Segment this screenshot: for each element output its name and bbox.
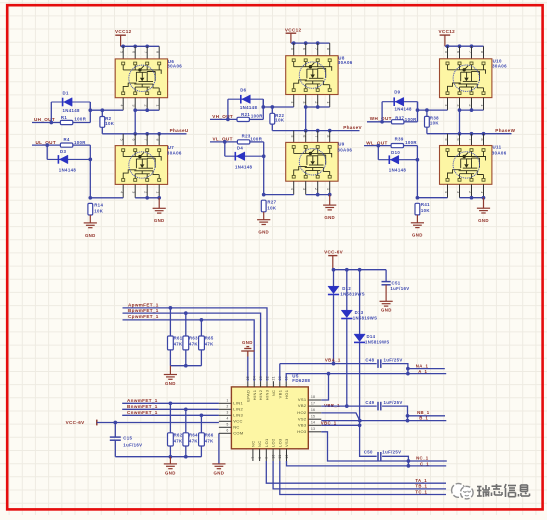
junction [113, 421, 117, 425]
svg-text:CnwmFET_1: CnwmFET_1 [127, 410, 158, 415]
svg-text:R1: R1 [61, 115, 67, 120]
svg-text:30A06: 30A06 [338, 60, 353, 65]
svg-text:PhaseV: PhaseV [343, 125, 362, 130]
svg-text:4: 4 [226, 417, 228, 421]
ground [477, 208, 490, 213]
wire drain stubs upper FET [447, 46, 449, 59]
svg-text:VBA_1: VBA_1 [325, 357, 341, 362]
wire BpwmFET_1 to HIN2 [123, 313, 261, 381]
resistor R4 100R [60, 143, 72, 147]
svg-text:4: 4 [120, 105, 124, 107]
svg-text:6: 6 [456, 51, 460, 53]
svg-text:COM: COM [233, 430, 243, 435]
capacitor C50 1uF/25V [378, 452, 381, 461]
svg-text:7: 7 [251, 456, 255, 458]
wire source bus upper FET [306, 106, 330, 108]
wire join down to low gate bus [89, 145, 91, 198]
svg-text:R65: R65 [205, 336, 214, 341]
svg-text:6: 6 [302, 48, 306, 50]
junction [332, 362, 336, 366]
junction [358, 419, 362, 423]
wire drain stubs upper FET [122, 46, 124, 59]
wire phase bus PhaseV [272, 130, 359, 132]
svg-text:NC: NC [257, 441, 262, 447]
svg-text:LO1: LO1 [264, 438, 269, 447]
wire R down to phase [271, 124, 273, 131]
svg-text:11: 11 [278, 455, 282, 459]
wire source bus lower FET [135, 197, 159, 199]
wire VCC rail [291, 42, 330, 44]
svg-text:8: 8 [326, 48, 330, 50]
svg-text:10: 10 [271, 454, 275, 458]
svg-text:10K: 10K [421, 208, 431, 213]
svg-text:47K: 47K [205, 342, 214, 347]
junction [407, 459, 411, 463]
junction [45, 143, 49, 147]
wire drain stubs upper FET [293, 43, 295, 56]
svg-text:LIN3: LIN3 [233, 412, 243, 417]
wire R down to phase [426, 127, 428, 134]
ground [257, 220, 270, 225]
svg-text:B_1: B_1 [419, 416, 428, 421]
junction [184, 364, 188, 368]
svg-text:30A06: 30A06 [337, 148, 352, 153]
wire R to gnd [89, 215, 91, 223]
svg-text:100R: 100R [405, 117, 417, 122]
wire up to diode [227, 99, 229, 119]
resistor R38 10K gate pulldown [425, 116, 430, 127]
capacitor C51 1uF/16V [385, 270, 387, 282]
wire VCC rail [121, 45, 160, 47]
svg-text:NA_1: NA_1 [416, 363, 429, 368]
resistor R2 10K gate pulldown [100, 117, 105, 128]
svg-text:NC_1: NC_1 [416, 456, 429, 461]
junction [169, 455, 173, 459]
wire pulldown drops [169, 308, 171, 336]
junction [458, 132, 462, 136]
svg-text:7: 7 [468, 139, 472, 141]
svg-text:14: 14 [311, 421, 315, 425]
svg-text:VCC: VCC [233, 418, 243, 423]
wire VB3 [321, 424, 359, 426]
wire phase drop [305, 107, 307, 131]
svg-text:5: 5 [120, 51, 124, 53]
svg-text:1N4148: 1N4148 [389, 167, 407, 172]
svg-text:2: 2 [468, 191, 472, 193]
wire lower rail [115, 446, 201, 457]
svg-text:VS3: VS3 [284, 438, 289, 447]
wire VB2 to cap [321, 405, 376, 407]
wire source to gnd [329, 195, 331, 206]
wire up to diode [50, 102, 52, 123]
svg-text:C50: C50 [364, 449, 373, 454]
resistor R14 10K [88, 203, 93, 215]
transistor U8 (high-side MOSFET) [286, 56, 338, 95]
svg-text:HIN2: HIN2 [258, 389, 263, 400]
svg-text:3: 3 [132, 191, 136, 193]
wire source stubs upper FET [447, 98, 449, 111]
wire down to diode [46, 145, 48, 159]
transistor U7 (low-side MOSFET) [115, 146, 167, 185]
svg-text:HO1: HO1 [284, 389, 289, 399]
svg-text:HO3: HO3 [297, 429, 307, 434]
transistor U9 (low-side MOSFET) [286, 142, 338, 181]
svg-text:VL_OUT: VL_OUT [213, 137, 233, 142]
svg-text:4: 4 [290, 101, 294, 103]
diode D3 1N4148 [47, 158, 90, 160]
wire resistor right [73, 144, 91, 146]
wire resistor right [404, 145, 418, 147]
svg-text:8: 8 [156, 139, 160, 141]
svg-text:1uF/16V: 1uF/16V [390, 286, 409, 291]
resistor R21 100R [237, 117, 249, 121]
svg-text:VH_OUT: VH_OUT [212, 114, 233, 119]
svg-text:8: 8 [156, 51, 160, 53]
svg-text:C48: C48 [365, 358, 374, 363]
svg-text:3: 3 [456, 104, 460, 106]
wire resistor to junction [73, 122, 91, 124]
svg-text:VCC-6V: VCC-6V [66, 420, 86, 425]
capacitor C48 1uF/25V [378, 359, 381, 368]
wire source stubs lower FET [122, 184, 124, 197]
svg-text:GND: GND [478, 218, 489, 223]
resistor R41 10K [415, 203, 420, 215]
svg-text:NC: NC [271, 390, 276, 396]
wire R to gate bus [426, 110, 428, 116]
wire R to gate bus [101, 110, 103, 116]
wire from gate net [367, 121, 392, 123]
wire source stubs upper FET [293, 95, 295, 108]
wire diode join down to gate bus [89, 102, 91, 110]
svg-text:VCC12: VCC12 [439, 29, 456, 34]
svg-text:7: 7 [314, 48, 318, 50]
svg-text:1N4148: 1N4148 [63, 108, 81, 113]
resistor R1 100R [60, 120, 72, 124]
svg-text:BpwmFET_1: BpwmFET_1 [128, 308, 159, 313]
wire rail to gnd [169, 366, 171, 375]
svg-text:5: 5 [444, 139, 448, 141]
svg-text:1N5819WS: 1N5819WS [353, 316, 378, 321]
svg-text:C15: C15 [123, 435, 132, 440]
wire down to diode [224, 142, 226, 156]
junction [133, 132, 137, 136]
svg-text:100R: 100R [74, 140, 86, 145]
wire rail to gnd [169, 457, 171, 464]
svg-text:1: 1 [326, 101, 330, 103]
wire low gate bus [264, 194, 294, 196]
resistor R63 47K [183, 336, 189, 350]
svg-text:LO3: LO3 [277, 438, 282, 447]
wire pulldown rail [170, 350, 201, 366]
svg-text:100R: 100R [74, 117, 86, 122]
wire VS3 / C_1 [287, 461, 447, 466]
ground [153, 208, 166, 213]
svg-text:3: 3 [302, 188, 306, 190]
svg-text:1: 1 [226, 399, 228, 403]
junction [304, 105, 308, 109]
wire VB3 down to cap row [360, 425, 377, 456]
svg-text:5: 5 [290, 135, 294, 137]
svg-text:GND: GND [412, 233, 423, 238]
svg-text:25: 25 [246, 376, 250, 380]
junction [100, 108, 104, 112]
svg-text:10K: 10K [267, 205, 277, 210]
wire cap to corner [382, 406, 407, 421]
svg-text:2: 2 [226, 405, 228, 409]
svg-text:10K: 10K [430, 121, 440, 126]
resistor R22 10K gate pulldown [270, 113, 275, 124]
IC right pin stubs [308, 399, 321, 401]
transistor U11 (low-side MOSFET) [440, 146, 492, 185]
svg-text:GND: GND [242, 340, 253, 345]
wire LO3 / TC_1 [280, 461, 446, 495]
svg-text:TC_1: TC_1 [415, 490, 427, 495]
svg-text:D9: D9 [394, 90, 400, 95]
svg-text:10K: 10K [105, 121, 115, 126]
svg-text:2: 2 [144, 105, 148, 107]
wire VCC-6V to VCC pin [97, 422, 219, 424]
diode D6 1N4148 [228, 98, 263, 100]
diode D13 1N5819WS [346, 270, 348, 311]
svg-text:6: 6 [226, 429, 228, 433]
svg-text:4: 4 [444, 191, 448, 193]
svg-text:22: 22 [265, 376, 269, 380]
wire source bus upper FET [460, 109, 484, 111]
resistor R65 47K [199, 336, 205, 350]
diode D9 1N4148 [382, 101, 417, 103]
wire BnwmFET_1 to LIN2 [122, 408, 219, 410]
svg-text:3: 3 [456, 191, 460, 193]
wire source bus upper FET [135, 109, 159, 111]
svg-text:16: 16 [311, 408, 315, 412]
wire VB1 riser [279, 364, 281, 382]
wire down to diode [377, 146, 379, 160]
svg-text:R27: R27 [267, 199, 276, 204]
junction [145, 196, 149, 200]
wire CpwmFET_1 to HIN1 [123, 320, 255, 381]
wire AnwmFET_1 to LIN1 [122, 402, 219, 404]
diode D14 1N5819WS [359, 270, 361, 334]
wire resistor right [250, 141, 264, 143]
svg-text:R61: R61 [174, 336, 183, 341]
junction [88, 108, 92, 112]
svg-text:R4: R4 [64, 137, 70, 142]
svg-text:TB_1: TB_1 [415, 484, 427, 489]
svg-text:GND: GND [85, 233, 96, 238]
junction [226, 118, 230, 122]
wire VCC-6V rail [333, 269, 386, 271]
junction [316, 193, 320, 197]
svg-text:24: 24 [253, 376, 257, 380]
svg-text:2: 2 [314, 188, 318, 190]
wire from low gate net [32, 144, 60, 146]
svg-text:GND: GND [381, 308, 392, 313]
junction [270, 105, 274, 109]
svg-text:C49: C49 [365, 400, 374, 405]
junction [446, 44, 450, 48]
svg-text:1: 1 [480, 104, 484, 106]
svg-text:VS1: VS1 [298, 397, 307, 402]
junction [261, 105, 265, 109]
svg-text:GND: GND [214, 471, 225, 476]
junction [380, 120, 384, 124]
svg-text:LIN2: LIN2 [233, 406, 243, 411]
svg-text:17: 17 [311, 401, 315, 405]
wire source bus lower FET [306, 194, 330, 196]
ground [84, 223, 97, 228]
ground [212, 464, 225, 469]
wire from low gate net [364, 145, 391, 147]
svg-text:VCC12: VCC12 [115, 29, 132, 34]
svg-text:R66: R66 [205, 432, 214, 437]
svg-text:10K: 10K [275, 118, 285, 123]
svg-text:6: 6 [302, 135, 306, 137]
wire cap to corner [382, 456, 408, 466]
svg-text:8: 8 [258, 456, 262, 458]
ground [411, 223, 424, 228]
watermark text (hand-drawn CJK strokes) [477, 484, 530, 497]
junction [292, 41, 296, 45]
junction [133, 108, 137, 112]
svg-text:1uF/16V: 1uF/16V [123, 443, 142, 448]
svg-text:R41: R41 [421, 202, 430, 207]
wire source stubs lower FET [293, 181, 295, 194]
svg-text:D1: D1 [63, 90, 69, 95]
junction [332, 268, 336, 272]
wire join down to low gate bus [263, 142, 265, 195]
svg-text:NB_1: NB_1 [417, 410, 430, 415]
wire NB_1 [408, 415, 446, 417]
svg-text:47K: 47K [205, 439, 214, 444]
svg-text:100R: 100R [251, 114, 263, 119]
svg-text:18: 18 [311, 395, 315, 399]
IC bottom pin stubs [252, 449, 254, 461]
svg-text:5: 5 [120, 139, 124, 141]
capacitor C15 1uF/16V [114, 423, 116, 438]
ground [164, 375, 177, 380]
svg-text:1: 1 [156, 191, 160, 193]
svg-text:23: 23 [259, 376, 263, 380]
junction [88, 158, 92, 162]
ground [380, 301, 393, 306]
svg-text:HIN1: HIN1 [252, 389, 257, 400]
svg-text:2: 2 [144, 191, 148, 193]
svg-text:8: 8 [480, 139, 484, 141]
wire VB1 to cap [280, 363, 377, 365]
svg-text:2: 2 [314, 101, 318, 103]
svg-text:4: 4 [120, 191, 124, 193]
wire LO1 / TA_1 [266, 461, 446, 483]
svg-text:1N4148: 1N4148 [240, 105, 258, 110]
svg-text:30A06: 30A06 [167, 151, 182, 156]
capacitor C49 1uF/25V [378, 402, 381, 411]
wire R to gate bus [271, 107, 273, 113]
svg-text:2: 2 [468, 104, 472, 106]
junction [416, 158, 420, 162]
svg-text:VS2: VS2 [298, 416, 307, 421]
wire diode join down to gate bus [262, 99, 264, 107]
svg-text:30A06: 30A06 [492, 151, 507, 156]
svg-text:6: 6 [132, 139, 136, 141]
svg-text:4: 4 [444, 104, 448, 106]
wire R to gnd [416, 215, 418, 223]
wire ApwmFET_1 to HIN3 [123, 308, 268, 381]
svg-text:13: 13 [311, 427, 315, 431]
junction [376, 144, 380, 148]
wire join down to low gate bus [416, 146, 418, 198]
svg-text:VB2: VB2 [298, 403, 307, 408]
wire gate bus upper [263, 106, 293, 108]
junction [169, 401, 173, 405]
svg-text:CpwmFET_1: CpwmFET_1 [128, 314, 159, 319]
wire CnwmFET_1 to LIN3 [122, 414, 219, 416]
svg-text:BnwmFET_1: BnwmFET_1 [127, 404, 158, 409]
junction [262, 154, 266, 158]
wire diode join down to gate bus [417, 102, 419, 110]
svg-text:1uF/25V: 1uF/25V [384, 400, 403, 405]
wire phase bus PhaseU [102, 133, 186, 135]
junction [406, 367, 410, 371]
svg-text:WH_OUT: WH_OUT [370, 116, 392, 121]
wire drain stubs lower FET [122, 134, 124, 146]
svg-text:7: 7 [314, 135, 318, 137]
svg-text:GND: GND [324, 215, 335, 220]
ground [164, 464, 177, 469]
svg-text:1: 1 [480, 191, 484, 193]
svg-text:47K: 47K [174, 342, 183, 347]
svg-text:NC: NC [233, 424, 239, 429]
svg-text:D6: D6 [240, 87, 246, 92]
svg-text:100R: 100R [250, 137, 262, 142]
wire HO2 join [321, 413, 360, 421]
wire up to diode [381, 102, 383, 122]
junction [327, 372, 331, 376]
svg-text:1uF/25V: 1uF/25V [382, 449, 401, 454]
svg-text:LO2: LO2 [271, 438, 276, 447]
wire R to gnd [263, 212, 265, 220]
ground [323, 205, 336, 210]
svg-text:47K: 47K [189, 342, 198, 347]
wire R down to phase [101, 127, 103, 134]
svg-text:1N5819WS: 1N5819WS [340, 292, 365, 297]
svg-text:30A06: 30A06 [167, 63, 182, 68]
junction [304, 129, 308, 133]
svg-text:HO2: HO2 [297, 410, 307, 415]
resistor R61 47K [168, 336, 174, 350]
svg-text:U7: U7 [168, 145, 175, 150]
svg-text:R63: R63 [189, 336, 198, 341]
svg-text:4: 4 [290, 188, 294, 190]
svg-text:GND: GND [258, 230, 269, 235]
junction [169, 306, 173, 310]
wire from gate net [210, 118, 237, 120]
svg-text:NC: NC [251, 441, 256, 447]
svg-text:1uF/25V: 1uF/25V [384, 358, 403, 363]
svg-text:PhaseW: PhaseW [495, 128, 515, 133]
IC top pin stubs [247, 381, 249, 387]
wire VS2 / B_1 [321, 420, 446, 422]
wire LO2 / TB_1 [273, 461, 446, 489]
svg-text:5: 5 [444, 51, 448, 53]
junction [345, 404, 349, 408]
svg-text:12: 12 [285, 454, 289, 458]
transistor U10 (high-side MOSFET) [440, 59, 492, 98]
diode D4 1N4148 [225, 155, 264, 157]
svg-text:3: 3 [226, 411, 228, 415]
svg-text:1N4148: 1N4148 [59, 168, 77, 173]
transistor U6 (high-side MOSFET) [115, 59, 167, 98]
wire VCC rail [445, 45, 484, 47]
